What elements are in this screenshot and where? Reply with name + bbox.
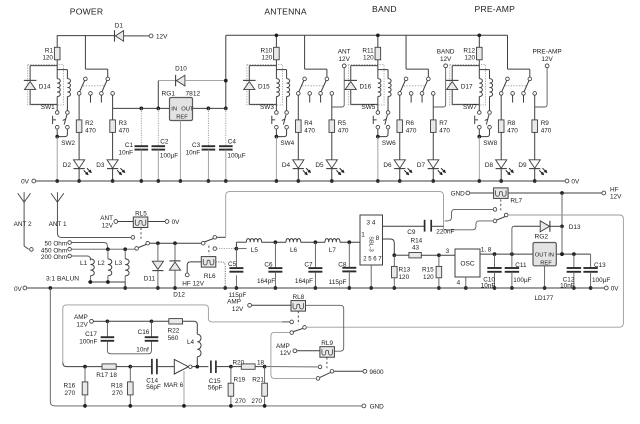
inductor L5 [246,239,261,243]
svg-text:D17: D17 [461,84,473,91]
relay coil enclosure RL3 [348,64,384,105]
svg-text:R22: R22 [168,327,180,334]
svg-text:12V: 12V [280,350,292,357]
svg-text:L2: L2 [98,260,106,267]
svg-text:HF: HF [610,186,619,193]
svg-text:OUT: OUT [181,107,194,113]
svg-text:R16: R16 [63,382,75,389]
svg-text:RL5: RL5 [135,210,147,217]
switch ground tie [478,129,480,137]
svg-text:D7: D7 [417,162,426,169]
resistor R21 270 [264,367,266,384]
svg-text:220nF: 220nF [436,228,454,235]
svg-text:270: 270 [65,390,76,397]
svg-text:HF 12V: HF 12V [182,281,204,288]
wire 0V down to amp ground [50,288,362,406]
resistor R18 270 [129,367,131,382]
svg-text:D6: D6 [383,162,392,169]
svg-text:MAR 6: MAR 6 [164,382,184,389]
svg-text:SBL-3: SBL-3 [368,236,374,252]
oscillator OSC [455,249,480,277]
svg-text:10nF: 10nF [186,149,201,156]
svg-text:PRE-AMP: PRE-AMP [475,4,516,14]
svg-text:SW1: SW1 [41,104,55,111]
capacitor C10 10nF [494,254,496,268]
wire D13 anode to RG2 OUT [512,226,514,254]
svg-text:D11: D11 [144,276,156,283]
svg-text:120: 120 [399,274,410,281]
wire filter line [236,241,246,243]
resistor R13 120 [393,255,395,266]
wire RF line RL5 to RL6 [150,242,202,244]
svg-text:R8: R8 [507,120,516,127]
svg-text:D10: D10 [175,65,187,72]
diode D16 [350,66,352,81]
switch ground tie [56,129,58,137]
svg-text:IN: IN [548,253,554,259]
svg-text:GND: GND [451,191,466,198]
svg-text:12V: 12V [610,194,622,201]
svg-text:C2: C2 [160,138,169,145]
svg-text:470: 470 [85,128,96,135]
svg-text:100µF: 100µF [513,277,531,284]
terminal 12V input [149,34,153,38]
LED D3 [107,160,118,168]
svg-text:10nf: 10nf [136,346,149,353]
svg-text:R15: R15 [422,267,434,274]
svg-text:164pF: 164pF [295,278,313,285]
antenna ANT 2 [18,193,24,202]
svg-text:43: 43 [412,245,420,252]
wire bus IN/OUT [113,107,170,109]
wire MAR6 output [192,366,208,368]
svg-text:ANT: ANT [100,215,113,222]
wire SBL-3 pin2567 to 0V [370,265,372,288]
diode D14 [29,66,31,81]
svg-text:12V: 12V [232,306,244,313]
svg-text:RL9: RL9 [321,340,333,347]
svg-text:D8: D8 [485,162,494,169]
svg-text:POWER: POWER [70,7,103,17]
svg-text:IN: IN [171,107,177,113]
svg-text:C11: C11 [515,262,527,269]
svg-text:R18: R18 [111,382,123,389]
svg-text:12V: 12V [440,56,452,63]
svg-text:BAND: BAND [437,49,455,56]
svg-text:0V: 0V [571,179,580,186]
capacitor C3 10nF [207,108,209,146]
svg-text:R9: R9 [541,120,550,127]
push switch SW8 [488,111,492,115]
svg-text:C4: C4 [228,138,237,145]
svg-text:4: 4 [457,279,461,286]
svg-text:D1: D1 [115,23,124,30]
node RF filter input [235,247,239,251]
relay switch RL7 [500,199,502,211]
relay switch RL5 [140,228,142,241]
svg-text:AMP: AMP [227,299,241,306]
LED D2 [74,160,85,168]
svg-text:2 5 6 7: 2 5 6 7 [363,257,382,263]
amplifier U2 MAR 6 [174,359,188,374]
svg-text:R4: R4 [304,120,313,127]
svg-text:R6: R6 [406,120,415,127]
svg-text:L6: L6 [290,247,298,254]
diode D11 [157,243,159,261]
svg-text:SW6: SW6 [382,140,396,147]
LED D9 [529,160,540,168]
svg-text:12V: 12V [102,222,114,229]
svg-text:R5: R5 [338,120,347,127]
balun bottom tie [89,276,91,282]
resistor R5 470 [331,95,333,120]
svg-text:GND: GND [370,403,385,410]
resistor R19 270 [230,367,232,384]
wire regulated bus vertical [225,35,227,108]
svg-text:ANT 1: ANT 1 [49,221,67,228]
diode D13 [540,221,549,232]
svg-text:LD177: LD177 [535,295,554,302]
resistor R11 120 [377,35,379,47]
relay coil RL1 [30,65,57,67]
svg-text:C1: C1 [125,142,134,149]
svg-text:C9: C9 [407,229,416,236]
svg-text:C3: C3 [192,142,201,149]
wire D10 to bus [157,81,159,109]
svg-text:56pF: 56pF [146,384,161,391]
LED D6 [394,160,405,168]
svg-text:270: 270 [112,390,123,397]
svg-text:56pF: 56pF [208,385,223,392]
push switch SW6 [386,111,390,115]
svg-text:470: 470 [439,128,450,135]
LED D8 [496,160,507,168]
svg-text:RG1: RG1 [161,90,175,97]
svg-text:120: 120 [262,55,273,62]
svg-text:PRE-AMP: PRE-AMP [533,49,562,56]
svg-text:R13: R13 [399,267,411,274]
relay switch RL9 [326,357,328,368]
relay coil enclosure RL4 [450,64,486,105]
wire HF bypass RL7 to RL8 [307,215,623,327]
svg-text:ANT 2: ANT 2 [14,221,32,228]
svg-text:100µF: 100µF [592,277,610,284]
wire RG2 IN side [556,253,590,255]
resistor R6 470 [399,95,401,120]
svg-text:L5: L5 [251,247,259,254]
relay contacts (DPDT) of RL2 [304,35,306,69]
svg-text:SW2: SW2 [61,140,75,147]
wire amp input loop (bypass tap) [63,305,282,363]
svg-text:12V: 12V [76,322,88,329]
push switch SW2 [66,111,70,115]
svg-text:D2: D2 [63,162,72,169]
svg-text:270: 270 [235,398,246,405]
relay switch RL8 [297,311,299,324]
svg-text:D4: D4 [282,162,291,169]
wire SBL-3 pin8 to R14 [383,239,395,255]
svg-text:D3: D3 [96,162,105,169]
resistor R10 120 [275,35,277,47]
svg-text:3:1 BALUN: 3:1 BALUN [46,275,79,282]
resistor R15 120 [438,255,440,266]
svg-text:L3: L3 [115,260,123,267]
svg-text:AMP: AMP [276,343,290,350]
capacitor C15 56pF [210,361,212,374]
terminal HF 12V [602,191,606,195]
svg-text:3 4: 3 4 [367,219,376,226]
wire OSC pin4 to 0V [465,277,467,288]
svg-text:C17: C17 [85,331,97,338]
relay coil RL3 [351,65,378,67]
resistor R16 270 [84,367,86,382]
relay coil RL6 [201,257,216,268]
svg-text:SW5: SW5 [361,104,375,111]
wire HF12V to D13/RG2 [561,193,563,226]
relay coil RL2 [249,65,276,67]
diode D15 [248,66,250,81]
svg-text:100nF: 100nF [79,338,97,345]
svg-text:R21: R21 [252,376,264,383]
svg-text:R3: R3 [119,120,128,127]
wire R14 to OSC pin3 [439,254,455,256]
relay coil enclosure RL2 [247,64,283,105]
svg-text:R2: R2 [85,120,94,127]
push switch SW4 [285,111,289,115]
wire 12V rail upper blocks [226,34,508,36]
svg-text:12V: 12V [339,56,351,63]
terminal GND bottom [362,404,366,408]
svg-text:9600: 9600 [369,369,384,376]
svg-text:OUT: OUT [535,253,548,259]
svg-text:10nF: 10nF [119,149,134,156]
svg-text:SW7: SW7 [463,104,477,111]
svg-text:D12: D12 [173,292,185,299]
LED D5 [326,160,337,168]
svg-text:270: 270 [251,398,262,405]
svg-text:ANT: ANT [338,49,351,56]
svg-text:1, 8: 1, 8 [481,247,492,254]
mixer U1 SBL-3 [360,215,383,265]
inductor L6 [286,239,301,243]
terminal 9600 [334,370,363,372]
svg-text:115pF: 115pF [329,279,347,286]
wire RG2 REF to 0V [544,266,546,288]
svg-text:C16: C16 [138,329,150,336]
svg-text:100µF: 100µF [227,152,245,159]
svg-text:0V: 0V [611,286,620,293]
svg-text:470: 470 [507,128,518,135]
capacitor C4 100µF [225,108,227,146]
svg-text:RL7: RL7 [510,197,522,204]
svg-text:L4: L4 [187,339,195,346]
capacitor C9 220nF [424,220,426,232]
svg-text:120: 120 [363,55,374,62]
svg-text:3: 3 [446,248,450,255]
resistor R17 18 [102,364,116,369]
svg-text:R14: R14 [411,237,423,244]
relay coil RL4 [452,65,479,67]
svg-text:BAND: BAND [372,4,397,14]
svg-text:C13: C13 [594,262,606,269]
svg-text:470: 470 [338,128,349,135]
antenna ANT 1 [51,193,57,202]
capacitor C12 10nF [573,254,575,268]
svg-text:R11: R11 [362,47,374,54]
relay contacts (DPDT) of RL4 [507,35,509,69]
svg-text:470: 470 [119,128,130,135]
capacitor C11 100µF [511,254,513,268]
svg-text:D5: D5 [315,162,324,169]
svg-text:ANTENNA: ANTENNA [264,7,307,17]
svg-text:SW3: SW3 [260,104,274,111]
svg-text:12V: 12V [156,33,168,40]
svg-text:120: 120 [464,55,475,62]
wire 12V rail POWER [57,35,114,37]
diode D17 [451,66,453,81]
svg-text:RL6: RL6 [204,273,216,280]
inductor L7 [325,239,340,243]
resistor R4 470 [297,95,299,120]
svg-text:C5: C5 [228,261,237,268]
svg-text:RG2: RG2 [535,234,549,241]
svg-text:R1: R1 [45,47,54,54]
capacitor C1 10nF [140,108,142,146]
svg-text:R12: R12 [463,47,475,54]
relay contacts (DPDT) of RL1 [84,35,86,69]
wire RL8 coil to RL9 coil [306,305,344,351]
relay contacts (DPDT) of RL3 [405,35,407,69]
capacitor C2 100µF [157,108,159,146]
svg-text:200 Ohm: 200 Ohm [41,254,67,261]
resistor R9 470 [534,95,536,120]
svg-text:REF: REF [540,260,552,266]
relay coil enclosure RL1 [28,64,64,105]
svg-text:0V: 0V [172,219,181,226]
wire amp output to RL9 switch [265,366,318,368]
svg-text:120: 120 [423,274,434,281]
wire MAR6 ground [183,371,185,406]
capacitor C14 56pF [130,366,152,368]
svg-text:L7: L7 [329,247,337,254]
resistor R7 470 [432,95,434,120]
svg-text:1: 1 [361,231,365,238]
svg-text:D16: D16 [359,84,371,91]
svg-text:470: 470 [541,128,552,135]
svg-text:OSC: OSC [460,261,475,268]
svg-text:100µF: 100µF [160,152,178,159]
svg-text:SW4: SW4 [280,140,294,147]
svg-text:D14: D14 [39,84,51,91]
resistor R2 470 [78,95,80,120]
svg-text:R7: R7 [439,120,448,127]
svg-text:0V: 0V [21,179,30,186]
svg-text:D13: D13 [569,224,581,231]
resistor R22 560 [169,319,183,324]
svg-text:470: 470 [406,128,417,135]
relay coil RL7 [494,188,509,199]
wire RF bypass to SBL-3 (C9) [226,192,444,238]
switch ground tie [377,129,379,137]
svg-text:164pF: 164pF [257,278,275,285]
svg-text:R10: R10 [260,47,272,54]
capacitor C13 100µF [590,254,592,268]
svg-text:D9: D9 [518,162,527,169]
switch ground tie [275,129,277,137]
svg-text:AMP: AMP [74,314,88,321]
resistor R8 470 [500,95,502,120]
resistor R3 470 [112,95,114,120]
svg-text:470: 470 [304,128,315,135]
svg-text:560: 560 [168,335,179,342]
wire SBL-3 to C9 [383,225,425,227]
svg-text:SW8: SW8 [483,140,497,147]
resistor R1 120 [56,35,58,47]
svg-text:0V: 0V [14,286,23,293]
resistor R12 120 [478,35,480,47]
svg-text:R17 18: R17 18 [96,372,117,379]
svg-text:12V: 12V [541,56,553,63]
LED D7 [428,160,439,168]
svg-text:7812: 7812 [186,90,201,97]
svg-text:120: 120 [42,55,53,62]
svg-text:8: 8 [376,235,380,242]
svg-text:L1: L1 [80,260,88,267]
svg-text:D15: D15 [258,84,270,91]
LED D4 [293,160,304,168]
diode D12 [174,243,176,261]
wire RL8 moving contact to RL9 bypass [271,333,316,379]
wire amp signal line [63,363,85,367]
svg-text:R19: R19 [234,376,246,383]
wire REF to 0V [179,121,181,182]
relay switch RL6 [201,241,205,245]
svg-text:REF: REF [176,115,188,121]
